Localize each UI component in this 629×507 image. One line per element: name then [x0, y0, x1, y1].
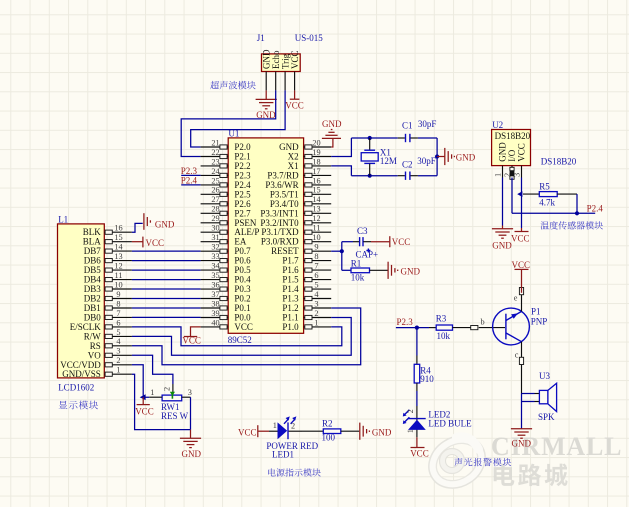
ground symbol at J1 pin1: [256, 90, 277, 120]
svg-text:VCC: VCC: [392, 237, 411, 247]
svg-text:GND: GND: [279, 142, 299, 152]
svg-text:33: 33: [211, 252, 219, 261]
wire crystal top rail: [351, 137, 437, 139]
U1 pin 30 ALE/P: [201, 224, 260, 238]
svg-text:3: 3: [116, 347, 120, 356]
svg-text:8: 8: [116, 299, 120, 308]
wire LCD DB5 to U1 P0.5: [132, 269, 201, 271]
svg-text:5: 5: [314, 281, 318, 290]
svg-text:GND: GND: [498, 142, 508, 162]
label power indicator module: [268, 468, 321, 476]
value SPK: [538, 412, 555, 422]
svg-text:14: 14: [114, 243, 123, 252]
svg-text:P3.3/INT1: P3.3/INT1: [260, 208, 298, 218]
svg-text:12M: 12M: [380, 156, 397, 166]
LCD pin 4 RS: [90, 337, 132, 351]
designator R2: [322, 419, 333, 429]
svg-text:1: 1: [150, 388, 154, 397]
svg-text:7: 7: [314, 262, 318, 271]
svg-text:26: 26: [211, 186, 219, 195]
svg-text:R2: R2: [322, 419, 333, 429]
label temperature sensor module: [541, 221, 603, 229]
U1 pin 19 X2: [288, 148, 332, 162]
svg-text:17: 17: [312, 167, 320, 176]
svg-text:GND: GND: [322, 119, 342, 129]
U1 pin 16 P3.6/WR: [265, 176, 331, 190]
resistor R3 10k: [429, 325, 471, 330]
svg-text:b: b: [481, 318, 485, 327]
LED1 POWER RED: [269, 416, 302, 439]
svg-text:GND: GND: [182, 449, 202, 459]
svg-text:100: 100: [322, 433, 336, 443]
ground symbol at R1: [388, 262, 420, 279]
designator LED2: [428, 410, 450, 420]
U1 pin 9 RESET: [271, 243, 331, 257]
svg-text:E/SCLK: E/SCLK: [70, 322, 102, 332]
svg-text:40: 40: [211, 318, 219, 327]
svg-text:U3: U3: [539, 371, 550, 381]
value LCD1602: [58, 382, 94, 392]
svg-text:22: 22: [211, 148, 219, 157]
wire U1 RESET pin9 to RC node: [331, 242, 342, 271]
transistor base pin: [471, 326, 505, 330]
value US-015: [295, 33, 324, 43]
LCD pin 10 DB3: [84, 280, 132, 294]
capacitor C1 30pF: [398, 134, 418, 142]
svg-text:35: 35: [211, 271, 219, 280]
wire RW1 pin3 down: [190, 397, 192, 429]
LCD pin 6 E/SCLK: [70, 318, 132, 332]
wire LCD DB4 to U1 P0.4: [132, 279, 201, 281]
U2 pin 2 I/O: [503, 149, 517, 179]
designator U1: [228, 129, 239, 139]
svg-text:Trig: Trig: [280, 53, 290, 69]
svg-text:18: 18: [312, 157, 320, 166]
svg-text:32: 32: [211, 243, 219, 252]
svg-text:6: 6: [116, 318, 120, 327]
wire U1 X1 pin18 to crystal bottom rail: [331, 166, 351, 176]
svg-text:P3.5/T1: P3.5/T1: [270, 189, 299, 199]
value 10k (R1): [351, 273, 365, 283]
svg-text:P3.0/RXD: P3.0/RXD: [261, 237, 299, 247]
value DS18B20 label: [541, 157, 577, 167]
svg-text:GND/VSS: GND/VSS: [62, 369, 101, 379]
U1 pin 21 P2.0: [201, 138, 252, 152]
LCD pin 14 DB7: [84, 243, 132, 257]
svg-text:9: 9: [116, 290, 120, 299]
svg-text:10: 10: [114, 280, 122, 289]
U2 pin 1 GND: [494, 142, 508, 178]
svg-text:P2.6: P2.6: [234, 199, 251, 209]
U1 pin 31 EA: [201, 233, 247, 247]
svg-text:P0.5: P0.5: [234, 265, 251, 275]
svg-text:2: 2: [163, 387, 172, 391]
value 30pF (C1): [418, 119, 437, 129]
designator C2: [402, 160, 413, 170]
svg-text:VCC: VCC: [512, 260, 531, 270]
designator LED1: [272, 450, 294, 460]
svg-text:2: 2: [406, 409, 415, 413]
U1 pin 27 P2.6: [201, 195, 252, 209]
svg-text:DB0: DB0: [84, 312, 102, 322]
wire LED1 to R2: [302, 430, 323, 432]
svg-text:12: 12: [114, 262, 122, 271]
svg-text:VCC: VCC: [285, 101, 304, 111]
potentiometer RW1 RES W: [149, 384, 190, 401]
ground symbol above U1 pin20 (inverted): [322, 119, 342, 147]
ground symbol below U2: [492, 226, 513, 251]
U1 pin 11 P3.1/TXD: [261, 224, 331, 238]
svg-text:6: 6: [314, 271, 318, 280]
U1 pin 26 P2.5: [201, 186, 252, 200]
svg-text:US-015: US-015: [295, 33, 324, 43]
svg-text:8: 8: [314, 252, 318, 261]
svg-text:3: 3: [188, 388, 192, 397]
capacitor C2 30pF: [398, 172, 418, 180]
node R5/IO junction: [575, 211, 579, 215]
svg-text:R5: R5: [539, 182, 550, 192]
resistor R1 10k: [342, 268, 388, 273]
wire U1 X2 pin19 to crystal top rail: [331, 138, 351, 157]
U1 pin 39 P0.0: [201, 309, 252, 323]
U1 pin 13 P3.3/INT1: [260, 205, 331, 219]
designator L1: [58, 215, 68, 225]
power VCC below U2: [511, 228, 530, 243]
J1 pin 3 stub: [284, 72, 286, 91]
wire LCD DB3 to U1 P0.3: [132, 288, 201, 290]
svg-text:P1.3: P1.3: [282, 294, 299, 304]
node right rail junction: [435, 154, 439, 158]
svg-text:910: 910: [420, 374, 434, 384]
ground symbol at LCD BLK: [132, 213, 175, 232]
wire R5 to P2.4 net: [512, 178, 595, 214]
svg-text:U1: U1: [228, 129, 239, 139]
wire LCD RS to U1 P1.2: [132, 308, 361, 365]
U1 pin 8 P1.7: [282, 252, 331, 266]
svg-text:DB3: DB3: [84, 284, 102, 294]
svg-text:P1.0: P1.0: [282, 322, 299, 332]
LED1 pin 2 number: [291, 422, 295, 431]
LCD module L1 body: [58, 224, 105, 378]
pin label c: [515, 351, 519, 360]
U1 pin 3 P1.2: [282, 299, 331, 313]
U1 pin 4 P1.3: [282, 290, 331, 304]
svg-text:VCC: VCC: [290, 50, 300, 69]
svg-text:J1: J1: [257, 33, 265, 43]
LCD pin 11 DB4: [84, 271, 132, 285]
node RESET junction: [340, 249, 344, 253]
svg-text:7: 7: [116, 309, 120, 318]
svg-text:P2.0: P2.0: [234, 142, 251, 152]
U1 pin 23 P2.2: [201, 157, 251, 171]
wire LCD DB7 to U1 P0.7: [132, 250, 201, 252]
U1 pin 12 P3.2/INT0: [260, 214, 331, 228]
svg-text:GND: GND: [492, 241, 512, 251]
svg-text:11: 11: [115, 271, 123, 280]
svg-text:GND: GND: [401, 266, 421, 276]
ground symbol below speaker: [511, 429, 532, 449]
svg-text:5: 5: [116, 328, 120, 337]
designator C3: [357, 226, 368, 236]
svg-text:31: 31: [211, 233, 219, 242]
U1 pin 18 X1: [288, 157, 332, 171]
watermark chinese text: [494, 464, 568, 487]
designator U3: [539, 371, 550, 381]
label ultrasonic module: [210, 81, 255, 89]
resistor R5 4.7k: [523, 192, 577, 197]
svg-text:P2.3: P2.3: [181, 166, 198, 176]
LCD pin 16 BLK: [83, 224, 132, 238]
RW1 pin 2 number: [163, 387, 172, 391]
wire LCD VO to RW1 wiper: [132, 355, 173, 384]
svg-text:ALE/P: ALE/P: [234, 227, 259, 237]
resistor R2 100: [323, 429, 359, 434]
svg-text:P2.5: P2.5: [234, 189, 251, 199]
svg-text:2: 2: [116, 356, 120, 365]
svg-text:15: 15: [114, 233, 122, 242]
svg-text:10k: 10k: [437, 331, 451, 341]
label sound-light alarm module: [454, 458, 511, 466]
svg-text:16: 16: [312, 176, 320, 185]
U1 pin 6 P1.5: [282, 271, 331, 285]
value 12M: [380, 156, 397, 166]
U1 pin 15 P3.5/T1: [270, 186, 331, 200]
svg-text:P2.3: P2.3: [397, 317, 414, 327]
svg-text:4: 4: [116, 337, 121, 346]
designator J1: [257, 33, 265, 43]
svg-text:GND: GND: [372, 427, 392, 437]
designator P1: [531, 307, 541, 317]
svg-text:RES W: RES W: [161, 411, 189, 421]
U1 pin 1 P1.0: [282, 318, 331, 332]
wire Echo to U1 P2.1: [181, 90, 276, 156]
svg-text:30: 30: [211, 224, 219, 233]
U1 pin 20 GND: [279, 138, 331, 152]
svg-text:P3.4/T0: P3.4/T0: [270, 199, 299, 209]
svg-text:16: 16: [114, 224, 122, 233]
svg-text:GND: GND: [155, 219, 175, 229]
LCD pin 12 DB5: [84, 262, 132, 276]
svg-text:15: 15: [312, 186, 320, 195]
svg-text:P1.2: P1.2: [282, 303, 298, 313]
svg-text:12: 12: [312, 214, 320, 223]
svg-text:28: 28: [211, 205, 219, 214]
svg-text:DB5: DB5: [84, 265, 102, 275]
op-amp U1 89C52 MCU body: [228, 138, 303, 333]
power VCC at LED1: [238, 425, 269, 437]
designator R4: [420, 366, 431, 376]
LCD pin 15 BLA: [83, 233, 132, 247]
wire LCD R/W to U1 P1.1: [132, 318, 351, 356]
wire P2.3 node: [396, 327, 429, 329]
U1 pin 25 P2.4: [201, 176, 252, 190]
value CAP+: [356, 250, 379, 260]
svg-text:P3.7/RD: P3.7/RD: [267, 170, 299, 180]
svg-text:GND: GND: [261, 49, 271, 69]
svg-text:c: c: [515, 351, 519, 360]
U1 pin 29 PSEN: [201, 214, 257, 228]
svg-text:VCC: VCC: [410, 449, 429, 459]
designator R3: [436, 314, 447, 324]
svg-text:11: 11: [313, 224, 321, 233]
svg-text:39: 39: [211, 309, 219, 318]
svg-text:13: 13: [114, 252, 122, 261]
LED2 LED BULE: [403, 406, 426, 437]
svg-text:24: 24: [211, 167, 220, 176]
wire crystal bottom rail: [351, 175, 437, 177]
power VCC at C3: [371, 236, 410, 247]
transistor emitter pin: [519, 288, 523, 312]
svg-text:VO: VO: [88, 350, 101, 360]
designator R1: [351, 259, 362, 269]
ground symbol at R2: [360, 423, 392, 440]
designator RW1: [161, 402, 180, 412]
svg-text:EA: EA: [234, 237, 246, 247]
pin label b: [481, 318, 485, 327]
ground symbol below RW1: [180, 430, 202, 459]
svg-text:DB7: DB7: [84, 246, 102, 256]
svg-text:23: 23: [211, 157, 219, 166]
node R5 to VCC junction: [517, 191, 522, 197]
svg-text:P2.3: P2.3: [234, 170, 251, 180]
svg-text:10: 10: [312, 233, 320, 242]
svg-text:VCC: VCC: [234, 322, 253, 332]
svg-text:P2.2: P2.2: [234, 161, 250, 171]
svg-text:2: 2: [291, 422, 295, 431]
svg-text:BLK: BLK: [83, 227, 102, 237]
svg-text:GND: GND: [512, 438, 532, 448]
svg-text:30pF: 30pF: [418, 119, 437, 129]
svg-text:e: e: [514, 294, 518, 303]
U1 pin 32 P0.7: [201, 243, 252, 257]
svg-text:P1.5: P1.5: [282, 275, 299, 285]
U1 pin 38 P0.1: [201, 299, 251, 313]
U1 pin 36 P0.3: [201, 281, 252, 295]
value POWER RED: [266, 441, 318, 451]
LCD pin 7 DB0: [84, 309, 132, 323]
net label P2.3 at U1: [181, 166, 201, 176]
svg-text:37: 37: [211, 290, 219, 299]
capacitor C3 CAP+: [342, 237, 371, 252]
wire P2.3 to R4: [416, 328, 418, 356]
svg-text:POWER RED: POWER RED: [266, 441, 318, 451]
net label P2.4 at U1: [181, 176, 201, 186]
U1 pin 28 P2.7: [201, 205, 252, 219]
LCD pin 5 R/W: [84, 328, 132, 342]
net label P2.4 at DS18B20: [587, 204, 604, 214]
svg-text:13: 13: [312, 205, 320, 214]
LCD pin 8 DB1: [84, 299, 132, 313]
svg-text:LED BULE: LED BULE: [428, 418, 472, 428]
svg-text:SPK: SPK: [538, 412, 555, 422]
value RES W: [161, 411, 189, 421]
wire U2 GND down: [502, 178, 504, 226]
transistor collector pin: [519, 342, 523, 394]
U2 pin 3 VCC: [513, 143, 527, 177]
svg-text:R1: R1: [351, 259, 362, 269]
svg-text:P1.6: P1.6: [282, 265, 299, 275]
value LED BULE: [428, 418, 472, 428]
designator C1: [402, 121, 413, 131]
svg-text:19: 19: [312, 148, 320, 157]
svg-text:27: 27: [211, 195, 219, 204]
sensor U2 DS18B20 body: [492, 130, 531, 166]
wire LCD DB6 to U1 P0.6: [132, 260, 201, 262]
U1 pin 35 P0.4: [201, 271, 252, 285]
svg-text:PNP: PNP: [531, 317, 548, 327]
value 30pF (C2): [417, 156, 436, 166]
svg-text:VCC: VCC: [517, 143, 527, 162]
svg-text:P3.1/TXD: P3.1/TXD: [261, 227, 299, 237]
node crystal bottom junction: [368, 174, 372, 178]
watermark logo: [419, 425, 495, 498]
U1 pin 22 P2.1: [201, 148, 251, 162]
wire Trig to U1 P2.0: [191, 90, 285, 147]
svg-text:4.7k: 4.7k: [539, 197, 555, 207]
LED1 pin 1 number: [273, 421, 277, 430]
net label P2.3 at R3: [397, 317, 414, 327]
wire LCD VCC/VDD to RW1 pin1: [132, 365, 149, 397]
LED2 pin 2 number: [406, 409, 415, 413]
transistor Q P1 PNP: [493, 308, 530, 345]
svg-text:P0.6: P0.6: [234, 256, 251, 266]
designator U2: [492, 120, 503, 130]
svg-text:P2.4: P2.4: [587, 204, 604, 214]
power VCC at RW1 pin1: [135, 394, 154, 416]
power VCC above P1: [512, 260, 531, 293]
svg-text:VCC: VCC: [182, 335, 201, 345]
wire U2 VCC down: [521, 178, 523, 229]
svg-text:36: 36: [211, 281, 219, 290]
designator X1: [380, 148, 391, 158]
svg-text:14: 14: [312, 195, 321, 204]
svg-text:VCC: VCC: [135, 407, 154, 417]
power VCC below LED2: [410, 437, 429, 458]
U1 pin 5 P1.4: [282, 281, 331, 295]
RW1 pin 1 number: [150, 388, 154, 397]
watermark CIRMALL text: [491, 432, 622, 461]
svg-text:30pF: 30pF: [417, 156, 436, 166]
svg-text:P0.1: P0.1: [234, 303, 250, 313]
svg-text:20: 20: [312, 138, 320, 147]
resistor R4 910: [414, 356, 420, 392]
LCD pin 1 GND/VSS: [62, 366, 132, 380]
ground symbol right of crystal rail: [437, 148, 476, 165]
svg-text:1: 1: [314, 318, 318, 327]
wire R4 to LED2: [416, 391, 418, 406]
power VCC at U1 pin40: [182, 327, 201, 346]
LCD pin 13 DB6: [84, 252, 132, 266]
svg-text:GND: GND: [456, 153, 476, 163]
RW1 pin 3 number: [188, 388, 192, 397]
speaker U3 SPK: [522, 383, 557, 411]
U1 pin 34 P0.5: [201, 262, 252, 276]
svg-text:I/O: I/O: [507, 149, 517, 161]
U1 pin 14 P3.4/T0: [270, 195, 331, 209]
U1 pin 33 P0.6: [201, 252, 252, 266]
value 910: [420, 374, 434, 384]
svg-text:P2.4: P2.4: [181, 176, 198, 186]
node crystal top junction: [368, 136, 372, 140]
svg-text:LCD1602: LCD1602: [58, 382, 94, 392]
designator R5: [539, 182, 550, 192]
svg-text:2: 2: [503, 173, 512, 177]
value 89C52: [228, 335, 252, 345]
power VCC at LCD BLA: [132, 237, 164, 248]
value 10k (R3): [437, 331, 451, 341]
wire LCD DB0 to U1 P0.0: [132, 316, 201, 318]
U1 pin 7 P1.6: [282, 262, 331, 276]
